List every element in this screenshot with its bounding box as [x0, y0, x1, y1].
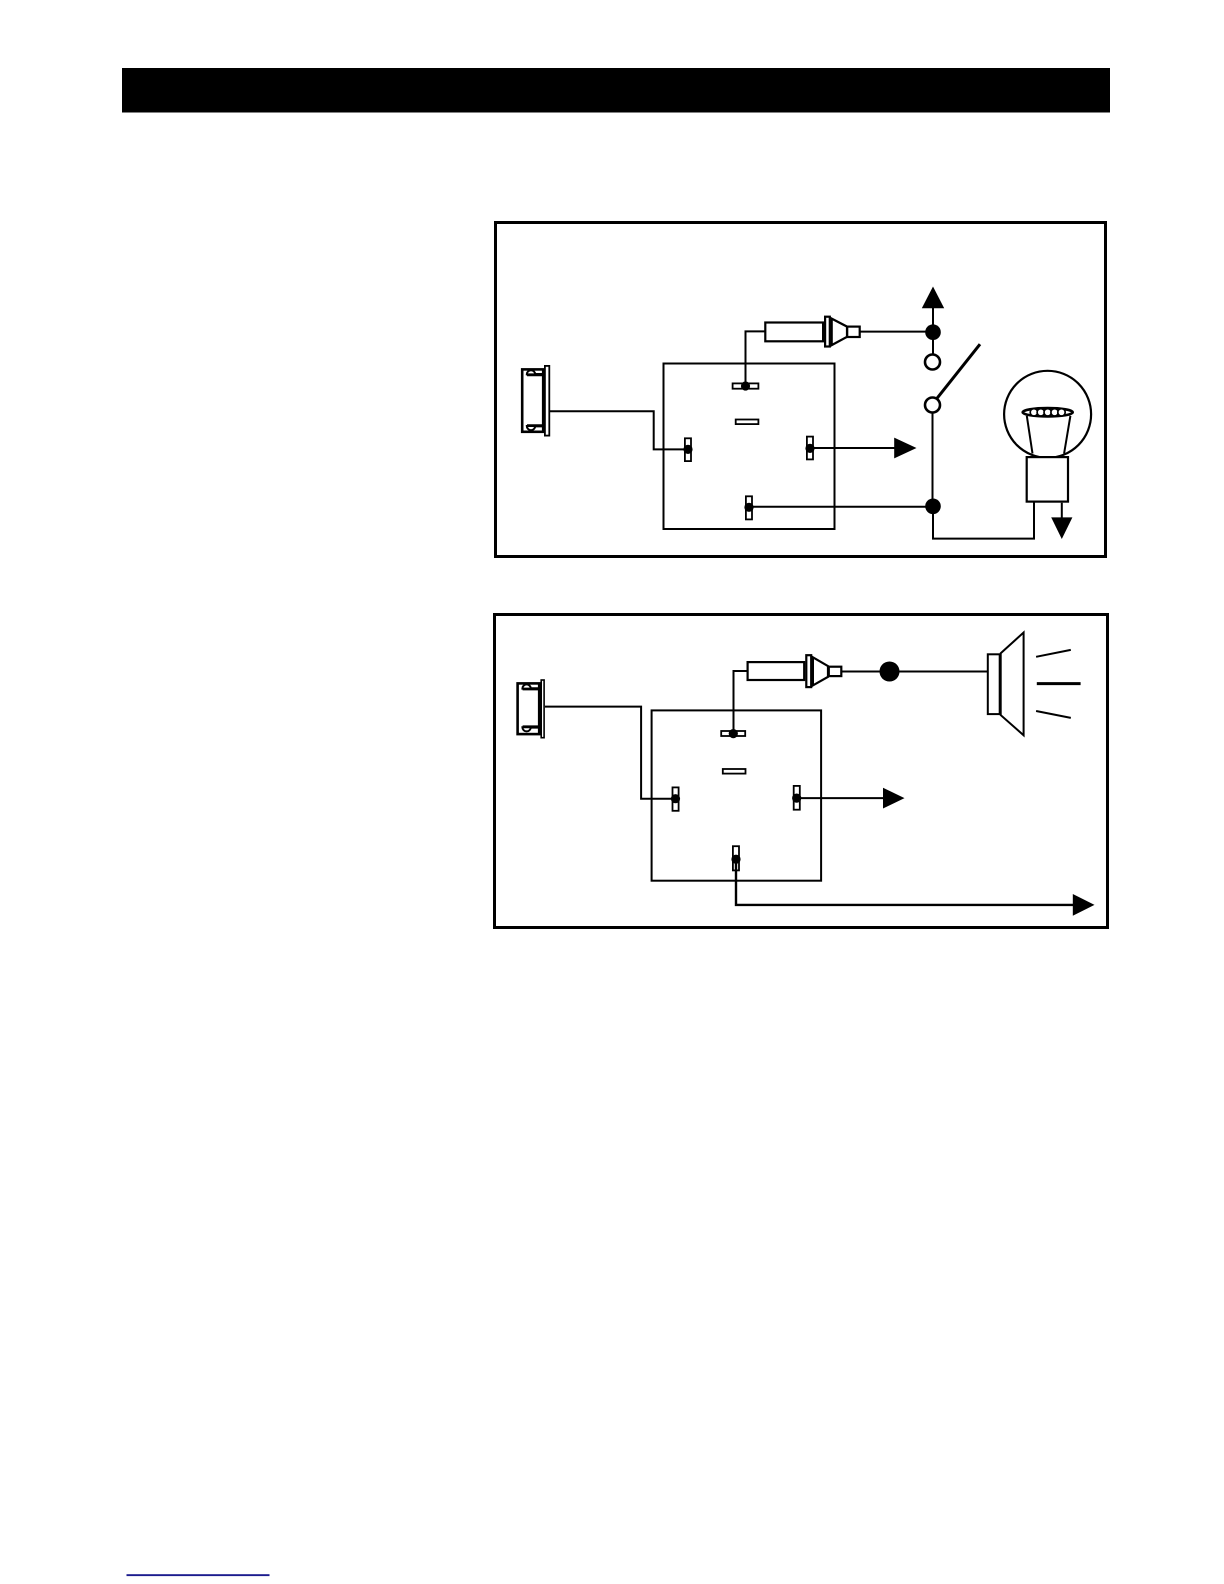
fuse holder F2 tip: [829, 667, 842, 676]
wire connector1 to relay K1 pin 86: [550, 411, 685, 449]
wire node B to lamp base: [933, 502, 1034, 539]
connector J1 body: [522, 369, 543, 431]
ground arrow (down): [1051, 517, 1072, 539]
lamp L1 stem left: [1027, 416, 1033, 454]
wire relay K1 pin 85 to fuse F1: [746, 331, 766, 386]
relay K2 pin 85 terminal (top): [721, 729, 745, 738]
connector J2 lower clip: [522, 727, 540, 731]
switch S1 lever: [937, 344, 980, 399]
fuse holder F1 tip: [847, 327, 860, 337]
horn H1 driver body: [988, 654, 1000, 714]
output arrow (right) from pin 87: [883, 788, 905, 809]
relay K2 pin 86 terminal (left): [671, 787, 680, 810]
connector J1 mounting plate: [545, 366, 549, 436]
fuse holder F1 body: [765, 323, 823, 342]
horn H1 cone: [1001, 633, 1024, 736]
wire relay K1 pin 30 to node B: [749, 506, 928, 508]
connector J2 upper clip: [522, 684, 540, 688]
relay K2 coil bar: [723, 769, 746, 774]
relay K1 pin 86 terminal (left): [683, 438, 692, 461]
connector J2 body: [518, 683, 540, 734]
horn H1 sound wave bottom: [1036, 711, 1071, 718]
relay K1 body: [664, 364, 835, 530]
lamp L1 glass envelope: [1004, 371, 1091, 458]
wire fuse F2 to node C: [842, 671, 883, 673]
lamp L1 base shell: [1027, 457, 1068, 502]
wire node A to switch S1: [932, 332, 934, 354]
fuse holder F1 cone: [832, 319, 847, 346]
wire fuse F1 to node A: [860, 331, 928, 333]
node B (junction dot): [925, 499, 941, 515]
fuse holder F2 body: [748, 662, 805, 680]
relay K2 pin 30 terminal (bottom): [731, 846, 740, 870]
lamp L1 stem right: [1064, 416, 1070, 454]
connector J1 upper clip: [527, 370, 544, 374]
relay K1 pin 85 terminal (top): [733, 381, 759, 390]
lamp L1 ground lead: [1061, 503, 1063, 519]
fuse holder F2 collar: [806, 655, 811, 687]
wire relay K1 pin 87 output: [813, 447, 896, 449]
relay K2 body: [652, 710, 822, 880]
connector J2 mounting plate: [541, 680, 544, 738]
battery feed arrow (up): [922, 287, 944, 327]
lamp L1 filament coil: [1030, 409, 1065, 416]
wire relay K2 pin 30 to supply: [736, 859, 1074, 905]
lamp L1 filament holder ellipse: [1023, 408, 1073, 416]
wire relay K2 pin 85 to fuse F2: [734, 671, 748, 734]
wire connector2 to relay K2 pin 86: [545, 707, 672, 799]
relay K1 coil bar: [736, 420, 759, 425]
horn H1 sound wave top: [1036, 650, 1071, 657]
wire node C to horn H1: [897, 671, 988, 673]
relay K1 pin 30 terminal (bottom): [744, 496, 753, 519]
header black title bar: [122, 68, 1110, 113]
figure 1 frame: [496, 223, 1106, 557]
supply arrow (right) at bottom: [1073, 894, 1095, 916]
relay K2 pin 87 terminal (right): [792, 786, 801, 810]
horn H1 sound wave middle: [1037, 682, 1081, 685]
fuse holder F1 collar: [825, 317, 830, 347]
node A (junction dot): [925, 324, 941, 340]
relay K1 pin 87 terminal (right): [805, 437, 814, 460]
wire relay K2 pin 87 output: [800, 797, 885, 799]
node C (junction dot): [880, 662, 900, 682]
connector J1 lower clip: [527, 426, 544, 430]
switch S1 upper contact: [925, 355, 940, 370]
output arrow (right) to switch circuit: [894, 438, 916, 459]
figure 2 frame: [495, 615, 1108, 928]
footer footnote rule (blue): [127, 1574, 270, 1576]
wire switch S1 to node B: [932, 413, 934, 505]
fuse holder F2 cone: [813, 657, 828, 685]
switch S1 lower contact: [925, 398, 940, 413]
